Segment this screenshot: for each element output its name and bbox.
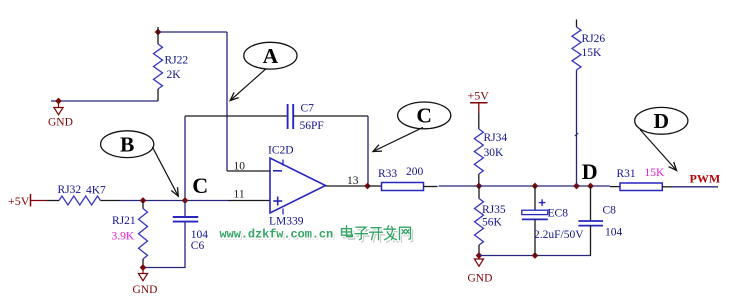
ground GND (below RJ21): [133, 268, 158, 297]
power +5V (left): [8, 194, 47, 208]
watermark chinese 电子开发网: [342, 226, 413, 243]
capacitor EC8 2.2uF/50V: [522, 186, 584, 256]
svg-text:3.9K: 3.9K: [112, 231, 135, 243]
svg-text:56K: 56K: [482, 217, 503, 229]
svg-text:104: 104: [605, 227, 623, 239]
wire: [47, 200, 59, 202]
capacitor C7 56PF: [288, 103, 324, 133]
svg-text:D: D: [582, 159, 598, 184]
svg-text:RJ21: RJ21: [112, 215, 136, 227]
node C junction: [182, 198, 188, 204]
wire: [439, 185, 480, 187]
svg-text:A: A: [263, 44, 279, 68]
wire: [226, 32, 228, 171]
wire: [184, 116, 186, 201]
svg-text:www.dzkfw.com.cn: www.dzkfw.com.cn: [220, 228, 334, 242]
svg-text:PWM: PWM: [690, 172, 721, 186]
callout C: [373, 102, 451, 152]
node junction rail/RJ34: [476, 183, 482, 189]
wire: [293, 115, 368, 117]
svg-text:200: 200: [406, 166, 424, 178]
watermark www.dzkfw.com.cn: [220, 228, 336, 244]
callout D: [635, 107, 688, 170]
svg-text:RJ22: RJ22: [165, 55, 189, 67]
svg-text:56PF: 56PF: [300, 120, 324, 132]
svg-text:C: C: [416, 104, 432, 128]
wire (main rail): [479, 185, 610, 187]
wire (PWM net): [672, 186, 718, 188]
svg-text:C7: C7: [301, 103, 315, 115]
op-amp U: IC2D LM339: [268, 145, 326, 228]
wire (bottom rail): [479, 255, 591, 257]
svg-text:EC8: EC8: [548, 208, 569, 220]
svg-text:+5V: +5V: [468, 89, 490, 103]
node junction RJ21 bottom: [140, 265, 146, 271]
svg-text:GND: GND: [133, 284, 158, 296]
wire: [143, 222, 185, 268]
svg-text:15K: 15K: [582, 47, 603, 59]
node junction bottom: [476, 253, 482, 259]
node junction RJ21 top: [140, 198, 146, 204]
svg-text:IC2D: IC2D: [268, 145, 294, 157]
resistor RJ22 2K: [154, 27, 189, 101]
wire (tick on net): [575, 133, 578, 136]
node junction EC8 bottom: [532, 253, 538, 259]
svg-text:4K7: 4K7: [86, 185, 106, 197]
svg-text:RJ32: RJ32: [58, 184, 82, 196]
resistor R31 15K: [610, 167, 672, 191]
wire: [120, 200, 228, 202]
svg-text:30K: 30K: [484, 147, 505, 159]
svg-text:13: 13: [347, 175, 359, 187]
node junction EC8 top: [532, 183, 538, 189]
wire: [51, 100, 158, 102]
callout B: [101, 131, 179, 196]
svg-text:C6: C6: [191, 240, 205, 252]
wire: [367, 116, 369, 186]
svg-text:B: B: [120, 133, 134, 157]
resistor RJ35 56K: [475, 186, 506, 256]
resistor RJ34 30K: [474, 113, 507, 186]
node junction RJ26/rail: [574, 183, 580, 189]
power +5V (middle): [468, 89, 490, 114]
svg-text:C: C: [192, 173, 208, 198]
wire: [185, 115, 287, 117]
svg-text:+5V: +5V: [8, 194, 30, 208]
capacitor C8 104: [578, 186, 622, 256]
node junction top of RJ22: [155, 29, 161, 35]
wire: [576, 70, 578, 186]
svg-text:RJ34: RJ34: [484, 132, 508, 144]
wire: [158, 31, 227, 33]
node junction C8/rail: [588, 183, 594, 189]
node junction output: [365, 183, 371, 189]
wire (output lead): [326, 185, 368, 187]
svg-text:2.2uF/50V: 2.2uF/50V: [534, 229, 584, 241]
wire (pin 10 lead): [227, 170, 270, 172]
resistor RJ32 4K7: [58, 184, 107, 205]
svg-text:GND: GND: [468, 273, 493, 285]
capacitor C6 104: [173, 201, 209, 253]
wire (pin 11 lead): [228, 200, 270, 202]
ground GND (below RJ35): [468, 256, 493, 285]
svg-text:C8: C8: [603, 205, 617, 217]
svg-text:11: 11: [234, 189, 245, 201]
svg-text:RJ26: RJ26: [582, 33, 606, 45]
svg-text:R33: R33: [378, 168, 397, 180]
resistor RJ26 15K: [572, 20, 605, 71]
svg-text:D: D: [654, 109, 670, 133]
resistor R33 200: [368, 166, 438, 191]
svg-text:RJ35: RJ35: [482, 204, 506, 216]
svg-text:2K: 2K: [167, 69, 182, 81]
svg-text:R31: R31: [617, 168, 636, 180]
svg-text:15K: 15K: [645, 167, 666, 179]
svg-text:10: 10: [234, 161, 246, 173]
callout A: [230, 42, 297, 100]
ground GND (top-left): [48, 98, 73, 128]
svg-text:GND: GND: [48, 117, 73, 129]
resistor RJ21 3.9K: [112, 201, 148, 268]
wire: [101, 200, 121, 202]
svg-text:LM339: LM339: [269, 216, 304, 228]
